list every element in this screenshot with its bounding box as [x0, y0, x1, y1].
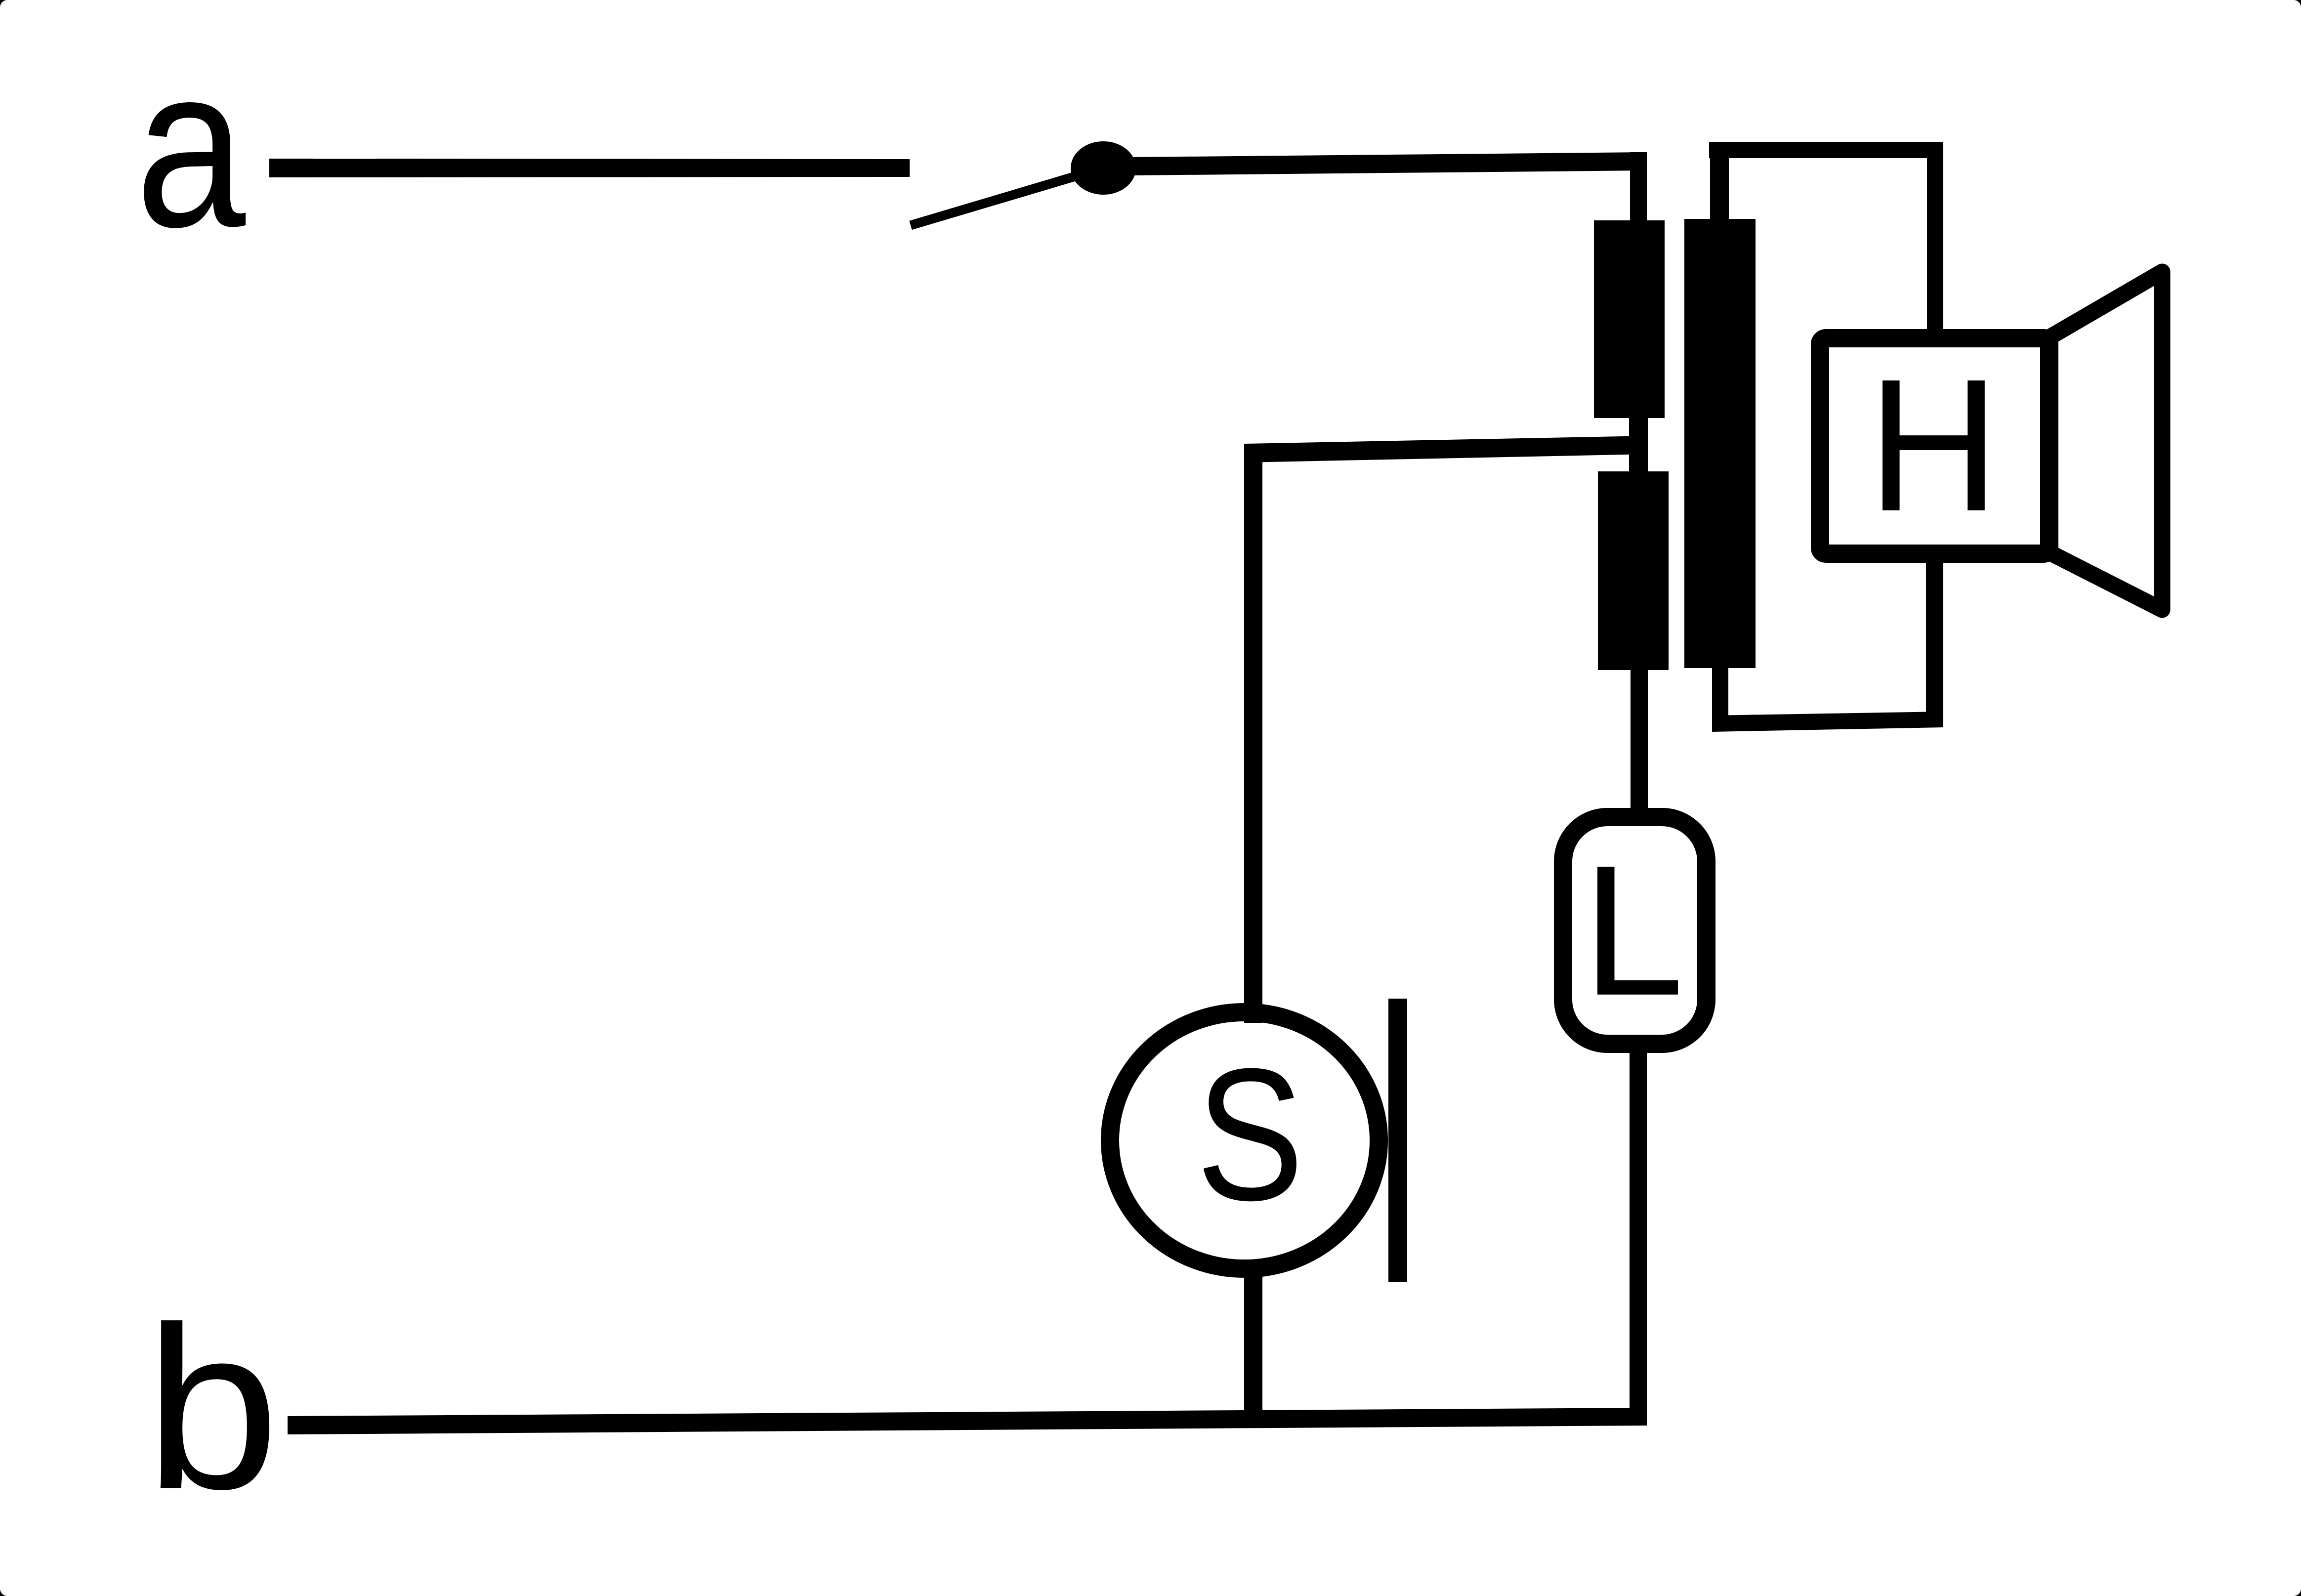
frame corner bottom-left [0, 1589, 7, 1596]
receiver H box [1820, 338, 2050, 554]
lamp L rounded box [1563, 817, 1707, 1044]
wire from terminal a to switch [269, 159, 910, 177]
bottom wire to terminal b [288, 1408, 1647, 1434]
microphone electrode bar [1388, 999, 1407, 1282]
wire down to microphone S [1244, 444, 1262, 1023]
switch pivot dot [1071, 141, 1136, 195]
receiver loop right wire upper [1927, 142, 1943, 329]
frame corner top-right [2294, 0, 2301, 7]
svg-text:L: L [1583, 827, 1684, 1035]
microphone S circle [1110, 1012, 1379, 1269]
receiver H label [1868, 339, 2000, 550]
wire from lower primary down to L [1631, 670, 1648, 808]
svg-text:b: b [145, 1278, 280, 1537]
wire from switch dot to top-right corner [1131, 152, 1647, 175]
frame corner bottom-right [2294, 1589, 2301, 1596]
secondary bottom stub [1712, 668, 1728, 717]
centre-tap wire to microphone branch [1245, 436, 1648, 462]
horn cone [2035, 272, 2162, 610]
svg-text:H: H [1868, 339, 2000, 550]
wire from L down to bottom wire [1630, 1053, 1647, 1426]
transformer secondary winding bar [1684, 219, 1756, 668]
receiver loop right wire lower [1926, 559, 1943, 727]
node b label [145, 1278, 280, 1537]
svg-text:a: a [135, 18, 247, 275]
transformer primary upper winding bar [1594, 220, 1665, 418]
svg-text:S: S [1196, 1030, 1304, 1240]
wire from S down to bottom wire [1244, 1267, 1262, 1426]
transformer primary lower winding bar [1598, 471, 1669, 670]
wire down from corner to primary top [1630, 152, 1647, 221]
switch arm (open contact) [911, 168, 1103, 225]
receiver loop bottom wire [1712, 712, 1943, 732]
microphone S label [1196, 1030, 1304, 1240]
frame corner top-left [0, 0, 7, 7]
receiver loop top wire [1709, 142, 1943, 158]
primary centre-tap stub [1629, 418, 1648, 472]
lamp L label [1583, 827, 1684, 1035]
secondary top stub [1710, 148, 1729, 219]
node a label [135, 18, 247, 275]
